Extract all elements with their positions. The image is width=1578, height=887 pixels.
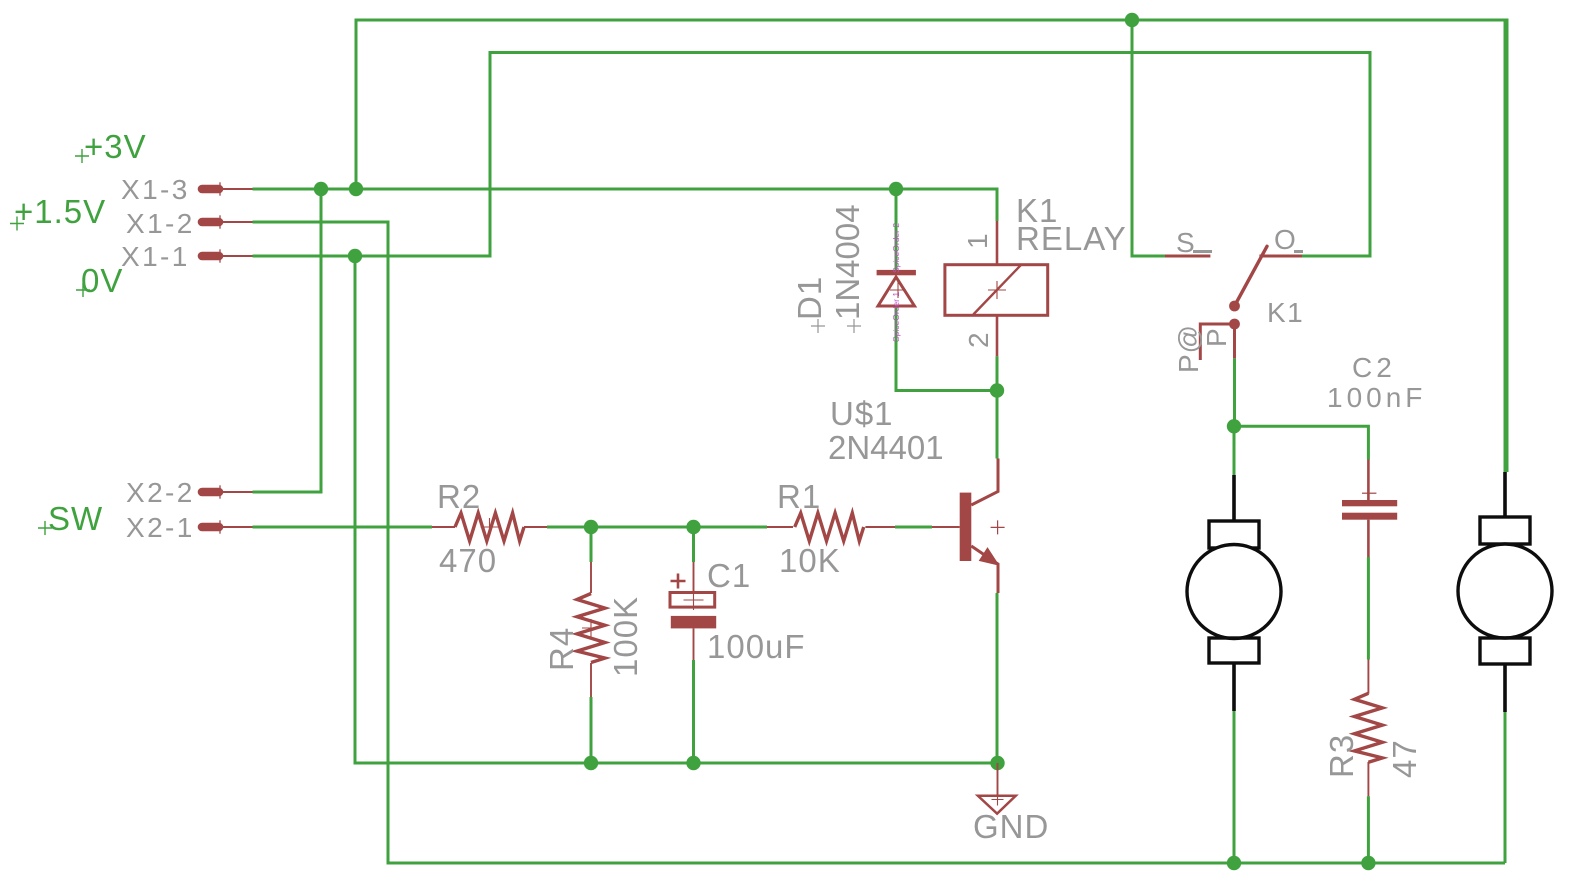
svg-text:2: 2: [963, 331, 994, 348]
relay switch lever: [1235, 246, 1268, 306]
svg-text:1N4004: 1N4004: [829, 204, 866, 320]
diode D1: [877, 270, 916, 275]
wire C1 top stub: [692, 527, 695, 562]
pin X1-3: [202, 185, 219, 194]
motor M2 (right): [1503, 472, 1507, 517]
wire 0V vertical to ground rail: [355, 256, 998, 763]
svg-text:C2: C2: [1352, 352, 1396, 383]
transistor U$1 2N4401: [960, 493, 972, 561]
svg-text:P@: P@: [1173, 324, 1204, 373]
wire emitter to ground rail: [996, 593, 999, 763]
svg-text:R4: R4: [543, 627, 580, 671]
wire switch pole down to motor node: [1233, 358, 1236, 426]
relay coil K1 body: [945, 265, 1048, 316]
wire R3 bottom to +1.5V rail: [1367, 796, 1370, 863]
pin X2-2: [202, 488, 219, 497]
svg-text:X2-2: X2-2: [126, 477, 195, 508]
wire motor M1 bottom to +1.5V rail: [1233, 711, 1236, 863]
wire diode top stub from +3V row: [895, 189, 898, 270]
svg-text:R2: R2: [437, 478, 481, 515]
wire motor M2 bottom to +1.5V rail: [1504, 712, 1507, 863]
node junction bottom rail / R3: [1361, 856, 1375, 870]
svg-text:X1-3: X1-3: [121, 174, 190, 205]
wire X2-2 row to +3V: [253, 189, 322, 492]
relay switch S pin: [1165, 255, 1210, 258]
svg-text:10K: 10K: [779, 542, 841, 579]
svg-text:GND: GND: [973, 808, 1049, 845]
wire R1 to transistor base: [895, 526, 932, 529]
node junction bottom rail / motor M1: [1227, 856, 1241, 870]
svg-text:0V: 0V: [81, 262, 123, 299]
node junction ground rail / R4: [584, 756, 598, 770]
svg-text:X1-1: X1-1: [121, 241, 190, 272]
svg-text:RELAY: RELAY: [1016, 220, 1127, 257]
svg-text:100nF: 100nF: [1327, 382, 1426, 413]
svg-text:O: O: [1274, 224, 1297, 255]
svg-text:D1: D1: [791, 276, 828, 320]
wire switch O terminal green stub: [1302, 255, 1370, 258]
svg-text:X1-2: X1-2: [126, 208, 195, 239]
wire diode bottom to relay pin 2 node: [896, 307, 997, 391]
svg-text:P: P: [1201, 327, 1232, 347]
wire R2 to R1 (base node): [547, 526, 767, 529]
svg-text:U$1: U$1: [830, 395, 894, 432]
svg-text:+1.5V: +1.5V: [14, 193, 106, 230]
pin X2-1: [202, 523, 219, 532]
capacitor C2: [1367, 460, 1370, 501]
relay switch O pin: [1259, 255, 1302, 258]
node junction base node / R4: [584, 520, 598, 534]
relay switch P@ pin: [1200, 324, 1234, 360]
svg-text:SpiceOrder 2: SpiceOrder 2: [891, 223, 901, 273]
wire motor node to C2 top: [1234, 426, 1368, 459]
node junction ground rail / emitter / GND symbol: [990, 756, 1004, 770]
resistor R4: [590, 562, 592, 593]
resistor R2: [432, 526, 455, 528]
node junction X1-3 / diode branch: [889, 182, 903, 196]
resistor R1: [767, 526, 793, 528]
svg-text:100K: 100K: [607, 596, 644, 677]
wire +3V top rail: [356, 20, 1507, 472]
node junction ground rail / C1: [686, 756, 700, 770]
wire +3V branch to relay switch S: [1132, 20, 1165, 256]
node junction base node / C1: [686, 520, 700, 534]
node junction X1-3 / X2-2 branch: [314, 182, 328, 196]
node junction top rail / S branch: [1125, 13, 1139, 27]
capacitor C1: [693, 562, 695, 593]
relay coil K1 pin 1: [996, 221, 999, 265]
svg-text:X2-1: X2-1: [126, 512, 195, 543]
node junction X1-1 / ground rail branch: [348, 249, 362, 263]
pin X1-2: [202, 218, 219, 227]
motor M1 (left): [1232, 475, 1236, 521]
node junction pole / C2 branch / motor M1: [1227, 419, 1241, 433]
svg-text:2N4401: 2N4401: [828, 429, 944, 466]
svg-text:C1: C1: [707, 557, 751, 594]
resistor R3: [1367, 660, 1369, 694]
wire relay pin2 / collector node vertical: [996, 356, 999, 458]
svg-text:K1: K1: [1267, 297, 1304, 328]
wire SW row X2-1 to R2: [253, 526, 433, 529]
svg-text:R3: R3: [1323, 734, 1360, 778]
relay switch pole P pin: [1233, 324, 1236, 358]
wire R4 bottom stub: [590, 697, 593, 763]
wire C1 bottom stub: [692, 660, 695, 763]
wire R4 top stub: [590, 527, 593, 562]
wire X1-3 row (+3V): [253, 189, 998, 221]
ground symbol GND: [997, 763, 999, 796]
pin X1-1: [202, 252, 219, 261]
svg-text:+3V: +3V: [84, 128, 147, 165]
svg-text:SpiceOrder 1: SpiceOrder 1: [891, 292, 901, 342]
node junction X1-3 / top rail: [349, 182, 363, 196]
svg-text:470: 470: [439, 542, 497, 579]
svg-text:1: 1: [962, 232, 993, 249]
svg-text:SW: SW: [48, 500, 103, 537]
wire C2 to R3 link: [1367, 557, 1370, 660]
svg-text:100uF: 100uF: [707, 628, 806, 665]
wire motor M1 top stub: [1233, 426, 1236, 475]
wire 0V upper run to switch O: [253, 53, 1371, 257]
svg-text:47: 47: [1386, 739, 1423, 778]
wire X1-2 row (+1.5V) to bottom rail: [253, 222, 1506, 863]
svg-text:R1: R1: [777, 478, 821, 515]
relay coil K1 pin 2: [996, 315, 999, 356]
wire motor M2 top stub: [1504, 20, 1507, 472]
svg-text:S: S: [1176, 227, 1196, 258]
node junction relay pin 2 / diode / collector: [990, 383, 1004, 397]
